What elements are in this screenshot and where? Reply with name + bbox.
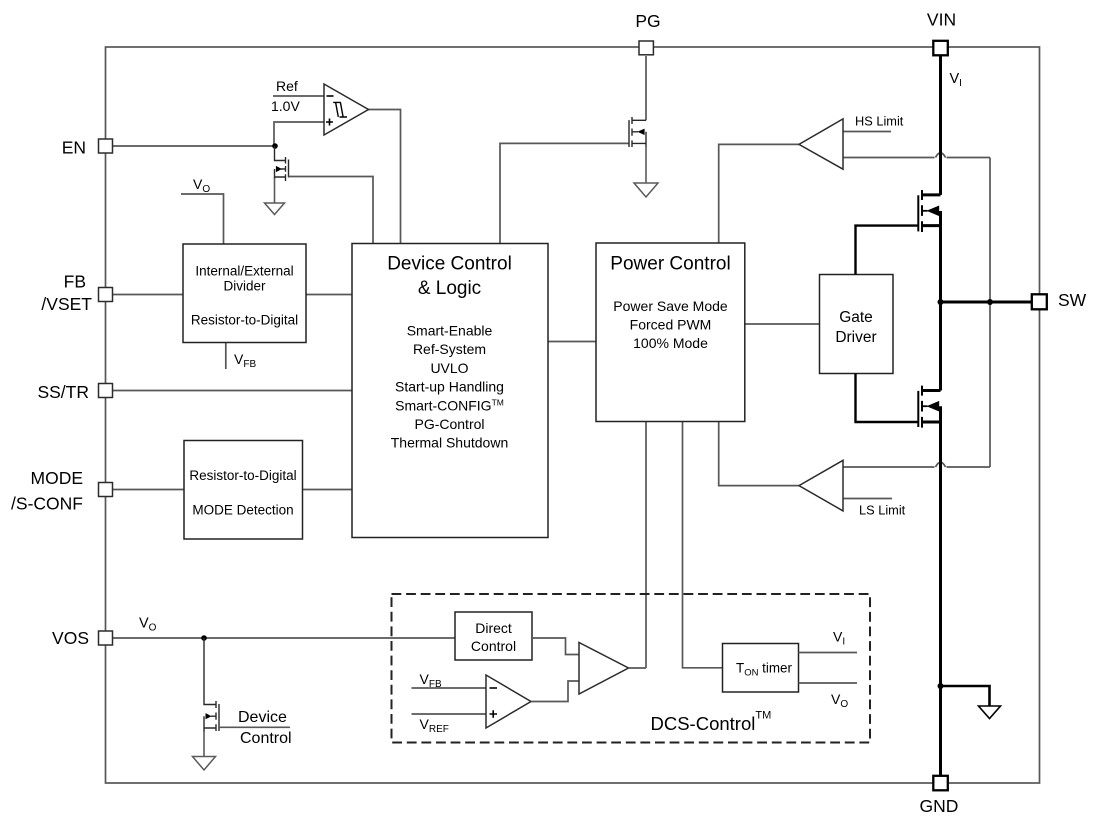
wire LS limit output to Power Control bottom [719,422,799,486]
svg-text:Divider: Divider [223,279,266,294]
svg-text:Direct: Direct [475,620,512,636]
svg-text:VOS: VOS [52,628,89,648]
svg-text:Control: Control [471,638,516,654]
svg-text:Thermal Shutdown: Thermal Shutdown [391,435,509,451]
pin VOS [99,631,113,645]
wire node A to comparator + input [274,122,324,146]
ground symbol internal right [979,706,1001,719]
svg-text:GND: GND [920,796,959,816]
pin MODE/S-CONF [99,483,113,497]
mosfet Q5 low-side power FET [918,386,940,428]
svg-text:100% Mode: 100% Mode [633,335,708,351]
comparator U2 DCS [486,675,531,728]
comparator U1 with hysteresis [324,84,369,135]
SW junction dot 2 [987,299,993,305]
svg-text:SS/TR: SS/TR [37,382,89,402]
SW junction dot 1 [938,299,944,305]
svg-text:DCS-ControlTM: DCS-ControlTM [651,710,772,735]
wire MODE pin to R2D box [113,489,184,491]
wire PG pin down to Q2 drain [645,56,647,120]
pin FB/VSET [99,288,113,302]
block Internal/External Divider [183,244,306,343]
wire LS limit threshold stub [843,498,892,500]
wire HS limit output to Power Control top [719,144,799,243]
wire V_I stub from TON timer [799,652,858,654]
node A junction dot [272,143,278,149]
pin GND [933,776,948,791]
outer IC boundary [106,47,1040,783]
mosfet Q4 high-side power FET [918,190,940,232]
wire Q1 gate to Device Control [289,177,374,244]
svg-text:LS Limit: LS Limit [859,503,906,518]
SW rail thick [941,301,1033,304]
wire V_REF stub [412,713,487,715]
svg-text:HS Limit: HS Limit [855,114,904,129]
wire GND rail to internal ground [941,686,990,706]
svg-text:Forced PWM: Forced PWM [630,317,712,333]
wire V_O stub from TON timer [799,682,858,684]
svg-text:Ref: Ref [276,78,298,94]
ground below Q2 [634,183,658,197]
wire FB pin to divider box [113,294,183,296]
svg-text:1.0V: 1.0V [271,98,300,114]
svg-text:FB: FB [64,272,86,292]
block Direct Control [455,612,532,660]
svg-text:MODE: MODE [31,468,84,488]
svg-text:PG: PG [635,11,660,31]
svg-text:UVLO: UVLO [430,360,468,376]
wire SW sense vertical [989,158,991,468]
svg-text:PG-Control: PG-Control [414,416,484,432]
svg-text:/VSET: /VSET [41,294,92,314]
wire SS/TR pin to Device Control [113,390,352,392]
svg-text:Device Control: Device Control [387,254,512,275]
svg-text:Ref-System: Ref-System [413,341,486,357]
svg-text:Device: Device [238,709,287,726]
svg-text:Resistor-to-Digital: Resistor-to-Digital [191,313,298,328]
block Device Control & Logic [352,244,548,538]
wire Q2 gate to Device Control [500,143,629,243]
mosfet Q1 EN pulldown [275,146,289,203]
svg-text:SW: SW [1058,290,1087,310]
pin PG [639,41,653,55]
wire V_FB stub [412,687,487,689]
wire LS limit sense with hop over GND rail [843,462,990,467]
wire Q4 gate to Gate Driver [856,226,919,275]
wire comparator output to Device Control [369,110,401,244]
block Power Control [596,243,745,422]
svg-text:Resistor-to-Digital: Resistor-to-Digital [189,468,296,483]
wire R2D box to Device Control [302,489,352,491]
wire V_O stub to divider box [181,194,224,244]
wire HS limit sense with hop over VIN rail [843,153,990,158]
svg-text:VIN: VIN [927,10,956,30]
mosfet Q3 VOS pulldown [204,638,219,757]
block Resistor-to-Digital MODE Detection [184,441,303,540]
wire Power Control to TON timer [683,422,723,668]
block TON timer [723,644,799,693]
wire summing amp output [629,667,647,669]
wire Power Control to DCS comparator output node [645,422,647,669]
svg-text:EN: EN [62,137,86,157]
wire Direct Control to summing amp [532,638,579,655]
svg-text:Start-up Handling: Start-up Handling [395,379,504,395]
GND junction dot [938,683,944,689]
svg-text:Smart-Enable: Smart-Enable [407,323,493,339]
wire U2 output to summing amp [531,681,579,702]
wire VOS pin to Direct Control [113,637,455,639]
wire Device Control to Power Control [548,341,596,343]
wire Q3 gate stub [219,726,290,728]
svg-text:Power Save Mode: Power Save Mode [613,298,728,314]
DCS-Control dashed box [392,594,871,743]
pin SS/TR [99,384,113,398]
wire EN pin to node A [113,145,275,147]
svg-text:& Logic: & Logic [418,278,481,299]
amplifier HS Limit [799,119,843,169]
svg-text:Driver: Driver [835,329,876,346]
wire HS limit threshold stub [843,131,891,133]
ground below Q1 [265,203,285,215]
svg-text:Internal/External: Internal/External [195,264,293,279]
svg-text:/S-CONF: /S-CONF [11,494,83,514]
svg-text:Smart-CONFIGTM: Smart-CONFIGTM [395,397,504,413]
pin VIN [933,41,948,56]
wire Power Control to Gate Driver [745,323,820,325]
amplifier summing DCS [579,643,629,695]
amplifier LS Limit [799,460,843,511]
svg-text:Power Control: Power Control [610,254,730,275]
wire Ref to comparator - input [273,95,324,97]
VIN rail thick [939,56,942,195]
ground below Q3 [193,757,216,771]
pin EN [99,139,113,153]
mosfet Q2 PG pulldown [629,117,646,183]
wire V_FB stub below divider [225,343,227,370]
VOS junction dot [201,635,207,641]
svg-text:MODE Detection: MODE Detection [192,503,293,518]
svg-text:Gate: Gate [839,309,873,326]
wire Q5 gate to Gate Driver [856,374,919,423]
svg-text:Control: Control [240,730,292,747]
pin SW [1032,294,1047,309]
block Gate Driver [820,275,894,374]
wire divider box to Device Control [306,294,352,296]
